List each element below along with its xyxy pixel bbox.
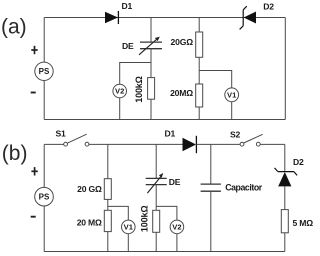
power source PS (b) <box>35 187 54 206</box>
svg-text:V1: V1 <box>124 223 134 232</box>
wire: V2 to bottom (a) <box>119 98 121 120</box>
zener diode D2 (a) <box>240 6 256 29</box>
wire: (a) left rail lower <box>43 80 45 119</box>
wire: V1 to bottom (b) <box>127 234 129 252</box>
wire: (b) top rail left of S1 <box>44 143 63 145</box>
svg-text:PS: PS <box>39 193 50 202</box>
svg-text:D1: D1 <box>122 1 133 11</box>
resistor 20Mohm (a) <box>196 84 203 107</box>
wire: (a) left rail upper <box>43 18 45 63</box>
voltmeter V2 (b) <box>170 220 184 234</box>
svg-text:DE: DE <box>169 177 181 187</box>
svg-text:(b): (b) <box>2 142 28 165</box>
minus terminal (b) <box>31 216 36 218</box>
wire: (b) top rail D1 to S2 <box>196 143 240 145</box>
wire: (b) left rail lower <box>43 206 45 252</box>
wire: (a) DE branch upper <box>150 18 152 43</box>
svg-text:20MΩ: 20MΩ <box>170 88 193 98</box>
svg-text:S1: S1 <box>56 128 67 138</box>
wire: (a) right rail <box>284 18 286 120</box>
wire: (b) right rail upper <box>284 144 286 171</box>
voltmeter V1 (b) <box>122 220 136 234</box>
capacitor C (b) <box>201 184 221 191</box>
wire: (a) bottom rail <box>44 119 285 121</box>
wire: (b) between 20G and 20M <box>107 199 109 210</box>
svg-text:100kΩ: 100kΩ <box>139 206 149 233</box>
svg-text:DE: DE <box>122 41 134 51</box>
wire: (a) 100k to bottom <box>150 99 152 119</box>
wire: (b) DE branch upper <box>155 144 157 178</box>
switch S1 <box>64 134 89 146</box>
svg-text:S2: S2 <box>230 130 241 140</box>
svg-text:(a): (a) <box>1 16 27 39</box>
wire: (b) top rail S1 to D1 <box>89 143 183 145</box>
svg-text:D1: D1 <box>165 128 176 138</box>
svg-text:V2: V2 <box>172 223 181 232</box>
wire: (a) top rail <box>44 17 285 19</box>
wire: voltmeter V2 branch (b) <box>156 206 177 220</box>
wire: (b) D2 to 5M <box>284 186 286 209</box>
resistor 20Gohm (a) <box>196 32 203 57</box>
wire: (b) left rail upper <box>43 144 45 187</box>
wire: (b) capacitor branch upper <box>210 144 212 184</box>
wire: voltmeter V2 branch (a) <box>120 63 151 85</box>
wire: (b) 100k to bottom <box>155 232 157 251</box>
diode D1 (a) <box>105 11 118 24</box>
wire: (b) 20G branch upper <box>107 144 109 178</box>
plus terminal (b) <box>31 167 37 175</box>
power source PS (a) <box>35 62 53 80</box>
resistor 20 Gohm (b) <box>104 179 111 200</box>
variable capacitor DE (b) <box>146 173 167 193</box>
wire: (b) bottom rail <box>44 251 285 253</box>
zener diode D2 (b) <box>275 168 298 187</box>
wire: (a) between 20G and 20M <box>198 57 200 84</box>
svg-text:5 MΩ: 5 MΩ <box>293 218 314 228</box>
svg-text:D2: D2 <box>263 1 274 11</box>
wire: (a) 20M to bottom <box>198 107 200 120</box>
wire: (b) capacitor to bottom <box>210 191 212 251</box>
resistor 5 Mohm (b) <box>281 210 288 233</box>
wire: voltmeter V1 branch (b) <box>108 206 129 220</box>
voltmeter V2 (a) <box>113 84 127 98</box>
wire: V1 to bottom (a) <box>231 102 233 120</box>
wire: (a) 20G branch top <box>198 18 200 33</box>
voltmeter V1 (a) <box>225 88 239 102</box>
wire: (b) top rail S2 to right corner <box>260 143 285 145</box>
minus terminal (a) <box>31 92 36 94</box>
svg-text:D2: D2 <box>293 157 304 167</box>
svg-text:V2: V2 <box>115 87 124 96</box>
wire: (b) 20M to bottom <box>107 232 109 252</box>
svg-text:Capacitor: Capacitor <box>225 182 263 192</box>
diode D1 (b) <box>183 136 197 153</box>
wire: (a) DE to 100k <box>150 49 152 78</box>
svg-text:100kΩ: 100kΩ <box>134 76 144 103</box>
svg-text:20 MΩ: 20 MΩ <box>77 217 102 227</box>
svg-text:V1: V1 <box>227 90 237 99</box>
plus terminal (a) <box>31 46 37 54</box>
wire: voltmeter V1 branch (a) <box>199 71 232 89</box>
svg-text:20GΩ: 20GΩ <box>171 37 194 47</box>
svg-text:20 GΩ: 20 GΩ <box>77 184 102 194</box>
resistor 100kohm (a) <box>148 78 155 100</box>
wire: V2 to bottom (b) <box>176 234 178 252</box>
wire: (b) DE to 100k <box>155 185 157 211</box>
resistor 20 Mohm (b) <box>104 210 111 231</box>
switch S2 <box>240 134 263 146</box>
wire: (b) 5M to bottom <box>284 233 286 252</box>
resistor 100kohm (b) <box>153 210 160 232</box>
svg-text:PS: PS <box>39 67 50 76</box>
variable capacitor DE (a) <box>139 37 162 55</box>
